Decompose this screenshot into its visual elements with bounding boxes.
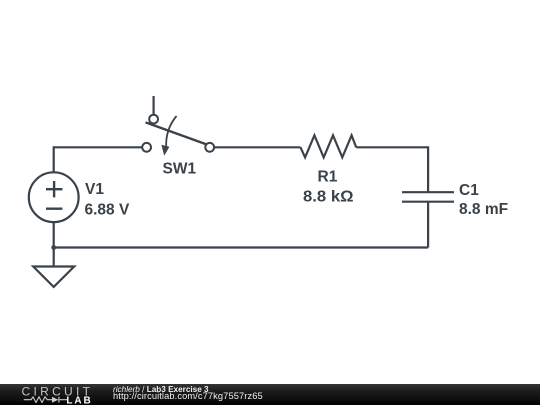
svg-text:8.8 kΩ: 8.8 kΩ bbox=[303, 189, 354, 206]
footer credit text bbox=[0, 0, 1, 1]
wire top from V1 to SW1 left terminal bbox=[54, 147, 143, 172]
capacitor C1 bbox=[402, 192, 454, 202]
svg-text:C1: C1 bbox=[459, 182, 479, 199]
svg-text:LAB: LAB bbox=[66, 395, 92, 405]
switch SW1 bbox=[142, 96, 214, 156]
footer bar bbox=[0, 384, 540, 405]
wire bottom rail bbox=[54, 246, 428, 248]
svg-text:8.8 mF: 8.8 mF bbox=[459, 201, 508, 218]
svg-text:6.88 V: 6.88 V bbox=[85, 201, 130, 218]
wire from R1 to top-right corner down to C1 bbox=[356, 147, 428, 192]
wire from C1 down to bottom rail bbox=[427, 202, 429, 248]
wire from SW1 right terminal to R1 bbox=[214, 146, 300, 148]
ground bbox=[33, 267, 74, 287]
wire V1 bottom to ground node bbox=[53, 222, 55, 266]
CircuitLab logo bbox=[0, 384, 110, 405]
voltage source V1 bbox=[29, 172, 79, 222]
svg-text:SW1: SW1 bbox=[163, 160, 197, 177]
svg-text:R1: R1 bbox=[318, 169, 338, 186]
resistor R1 bbox=[301, 135, 357, 157]
svg-text:V1: V1 bbox=[85, 181, 104, 198]
node junction dot bbox=[51, 245, 56, 250]
